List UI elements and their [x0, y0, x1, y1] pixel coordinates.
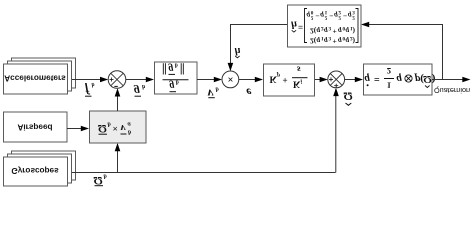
svg-text:=: =	[298, 22, 303, 32]
otimes symbol	[405, 75, 412, 82]
wire gyro output	[72, 89, 336, 173]
svg-text:2: 2	[338, 15, 341, 21]
svg-text:q: q	[324, 37, 328, 46]
svg-text:−: −	[343, 12, 347, 21]
svg-text:q: q	[324, 27, 328, 36]
block normalize	[155, 62, 198, 94]
svg-text:h: h	[291, 19, 297, 31]
wire sum1 to normalize	[126, 79, 148, 81]
svg-text:Ω: Ω	[98, 122, 107, 134]
svg-text:v: v	[121, 122, 126, 134]
wire cross to PI	[239, 79, 257, 81]
wire OmegaXv down to sum1	[117, 95, 119, 112]
svg-text:q: q	[346, 27, 350, 36]
svg-text:q: q	[365, 73, 371, 85]
svg-text:g: g	[169, 80, 175, 91]
svg-text:=: =	[374, 73, 380, 84]
svg-text:2: 2	[352, 15, 355, 21]
svg-text:2: 2	[387, 66, 392, 76]
svg-text:1: 1	[387, 81, 391, 91]
block Omega x v (gray)	[90, 111, 147, 143]
svg-text:2: 2	[311, 15, 314, 21]
wire output quaternion	[432, 79, 465, 81]
svg-text:): )	[432, 73, 436, 85]
svg-text:e: e	[246, 86, 252, 100]
svg-text:b: b	[92, 81, 95, 87]
plus sign left	[110, 78, 114, 82]
svg-text:1: 1	[325, 9, 328, 15]
svg-text:Gyroscopes: Gyroscopes	[11, 166, 59, 175]
whole diagram drawn upright, flipped vertically to match reference	[4, 5, 471, 188]
arrow into OmegaXv block top	[115, 143, 121, 151]
block PI controller	[264, 64, 315, 96]
svg-text:b: b	[175, 62, 178, 68]
wire PI to sum3	[315, 79, 322, 81]
svg-text:v: v	[208, 87, 214, 102]
svg-text:s: s	[296, 64, 301, 74]
matrix brackets	[305, 9, 359, 43]
svg-text:2: 2	[338, 9, 341, 15]
arrow into sum3 top	[333, 88, 339, 96]
cross product circle	[222, 71, 239, 88]
svg-text:q: q	[338, 27, 342, 36]
matrix row 3	[307, 9, 356, 21]
svg-text:−: −	[315, 12, 319, 21]
sum junction S1	[108, 71, 126, 89]
wire airspeed	[67, 128, 83, 130]
svg-text:Ω: Ω	[344, 90, 353, 104]
svg-text:−: −	[329, 12, 333, 21]
label f_b	[85, 81, 95, 97]
svg-text:3: 3	[329, 25, 332, 31]
block Gyroscopes (stacked)	[4, 151, 76, 186]
label Omega_b (gyro)	[94, 173, 108, 189]
svg-text:Quaternion: Quaternion	[434, 86, 470, 95]
svg-text:2: 2	[325, 15, 328, 21]
minus sign top	[114, 85, 118, 87]
svg-text:Airspeed: Airspeed	[17, 123, 52, 132]
label v_b	[208, 86, 220, 102]
svg-text:3: 3	[329, 35, 332, 41]
wire feedback	[368, 25, 443, 80]
svg-text:3: 3	[352, 9, 355, 15]
wire matrix output to cross circle	[231, 25, 288, 65]
svg-text:q: q	[346, 37, 350, 46]
wire sum3 to qdot block	[345, 79, 357, 81]
svg-text:g: g	[168, 63, 174, 74]
svg-text:Accelerometers: Accelerometers	[4, 74, 66, 83]
svg-text:×: ×	[113, 123, 118, 133]
block Airspeed	[4, 112, 68, 142]
svg-text:q: q	[317, 27, 321, 36]
svg-text:q: q	[397, 73, 403, 85]
svg-text:+: +	[333, 27, 337, 36]
sum junction S3	[328, 71, 345, 88]
wire normalize to cross	[197, 79, 216, 81]
svg-text:q: q	[338, 37, 342, 46]
block h(q) matrix	[288, 5, 362, 47]
svg-text:p: p	[276, 72, 280, 78]
svg-text:+: +	[333, 37, 337, 46]
svg-text:+: +	[283, 75, 288, 85]
block Accelerometers (stacked)	[4, 58, 76, 94]
wire accel to sum1	[72, 79, 102, 81]
arrow into OmegaXv left	[81, 126, 89, 132]
label g_b	[133, 83, 146, 99]
svg-text:q: q	[317, 37, 321, 46]
matrix row 2	[310, 25, 356, 36]
svg-text:h: h	[235, 45, 241, 57]
matrix row 1	[310, 35, 356, 46]
svg-text:×: ×	[227, 73, 233, 84]
svg-text:0: 0	[311, 9, 314, 15]
block qdot equation	[364, 64, 433, 95]
